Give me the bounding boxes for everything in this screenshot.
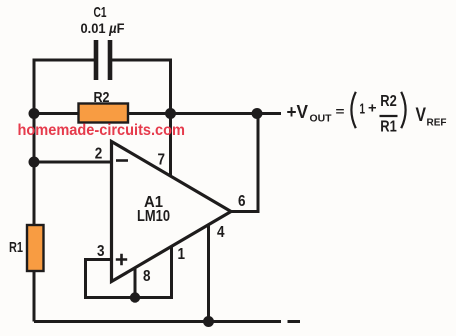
svg-text:R1: R1	[380, 119, 397, 136]
node A (R2 left junction)	[29, 108, 40, 119]
wire	[34, 112, 281, 115]
svg-text:=: =	[336, 105, 345, 119]
svg-text:1: 1	[178, 246, 186, 263]
formula left parenthesis	[351, 92, 355, 128]
formula fraction R2/R1	[380, 93, 398, 136]
svg-text:R1: R1	[9, 240, 23, 256]
svg-text:2: 2	[95, 146, 103, 163]
node C (R2 right junction)	[165, 108, 176, 119]
op-amp U1	[112, 142, 232, 282]
svg-text:1: 1	[360, 101, 366, 118]
output formula +VOUT	[287, 102, 345, 125]
node F (pin 4 junction)	[203, 316, 214, 327]
svg-text:6: 6	[238, 193, 246, 210]
svg-text:+: +	[368, 100, 377, 116]
svg-text:OUT: OUT	[310, 114, 332, 125]
wire	[34, 320, 281, 323]
node E (pin 8 junction)	[130, 292, 140, 302]
resistor R1	[27, 225, 44, 271]
svg-text:LM10: LM10	[137, 208, 170, 225]
non-inverting input plus sign	[116, 254, 127, 265]
wire	[169, 114, 172, 178]
inverting input minus sign	[116, 159, 128, 162]
svg-text:+V: +V	[287, 102, 309, 122]
svg-text:C1: C1	[94, 4, 107, 21]
svg-text:R2: R2	[94, 90, 110, 106]
svg-text:V: V	[416, 104, 427, 126]
wire	[110, 60, 171, 114]
resistor R2	[79, 104, 129, 123]
wire	[231, 114, 258, 212]
node D (output junction)	[252, 108, 263, 119]
negative terminal	[288, 320, 301, 323]
node B (pin 2 tap)	[29, 157, 40, 168]
svg-text:homemade-circuits.com: homemade-circuits.com	[18, 122, 186, 139]
svg-text:7: 7	[158, 152, 166, 169]
formula right parenthesis	[401, 92, 405, 128]
wire	[33, 114, 36, 322]
svg-text:R2: R2	[380, 93, 397, 110]
formula 1 +	[360, 100, 377, 118]
formula VREF	[416, 104, 447, 129]
svg-text:REF: REF	[427, 118, 447, 129]
wire	[134, 267, 137, 298]
wire	[207, 224, 210, 322]
wire	[34, 161, 113, 164]
svg-text:0.01 µF: 0.01 µF	[81, 20, 125, 36]
capacitor C1	[96, 40, 110, 80]
wire	[86, 247, 172, 298]
svg-text:8: 8	[143, 268, 151, 285]
svg-text:3: 3	[97, 243, 105, 260]
wire	[34, 60, 96, 114]
svg-text:4: 4	[217, 224, 225, 241]
